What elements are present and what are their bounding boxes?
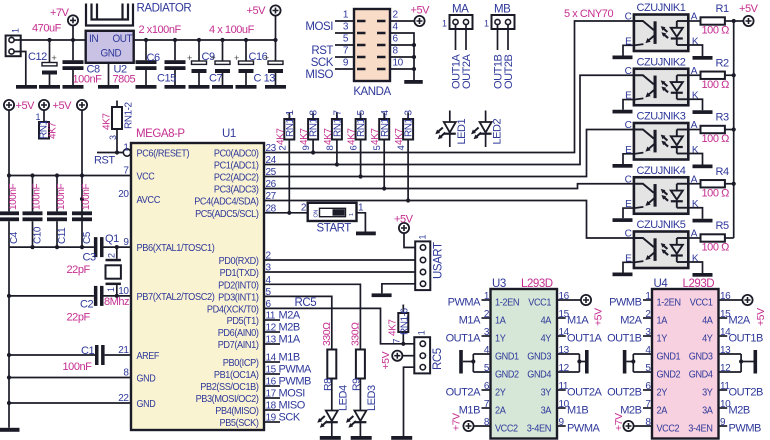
svg-text:OUT2B: OUT2B [503, 54, 515, 89]
svg-text:22: 22 [118, 393, 129, 404]
svg-text:RN1-1: RN1-1 [285, 109, 296, 137]
wire CZUJNIK5 cathode gnd [688, 262, 702, 273]
svg-text:100 Ω: 100 Ω [702, 79, 730, 91]
svg-text:+5V: +5V [247, 5, 267, 17]
resistor R3 100 [688, 112, 733, 146]
capacitor C6 [136, 38, 160, 85]
svg-text:1: 1 [11, 28, 21, 33]
svg-text:PC0(ADC0): PC0(ADC0) [214, 149, 259, 160]
svg-text:PD6(AIN0): PD6(AIN0) [218, 328, 259, 339]
node [732, 73, 736, 77]
ground [459, 350, 463, 374]
ground [16, 85, 37, 89]
svg-text:MISO: MISO [279, 400, 306, 412]
svg-text:Q1: Q1 [105, 233, 119, 245]
ground [693, 56, 713, 60]
svg-text:7: 7 [392, 339, 402, 344]
svg-text:+5V: +5V [755, 308, 767, 326]
svg-text:4Y: 4Y [702, 333, 713, 344]
wire PD4 RC5 net [264, 297, 414, 344]
svg-text:PC4(ADC4/SDA): PC4(ADC4/SDA) [194, 197, 258, 208]
resistor RN1-3 4K7 pullup [394, 109, 415, 202]
svg-text:4K7: 4K7 [102, 113, 113, 130]
svg-text:5: 5 [343, 34, 349, 45]
svg-text:10: 10 [118, 286, 129, 297]
svg-text:PB0(ICP): PB0(ICP) [223, 358, 259, 369]
LED LED4 [317, 379, 349, 437]
resistor R8 330 [321, 322, 337, 391]
svg-text:M1A: M1A [279, 334, 301, 346]
svg-text:CZUJNIK1: CZUJNIK1 [637, 2, 686, 14]
svg-text:4K7: 4K7 [48, 122, 59, 139]
svg-text:U3: U3 [492, 278, 506, 290]
svg-text:+7V: +7V [451, 413, 463, 431]
optocoupler CZUJNIK2 CNY70 [625, 56, 699, 105]
svg-text:4K7: 4K7 [388, 319, 399, 336]
svg-text:7: 7 [343, 46, 349, 57]
svg-text:GND4: GND4 [689, 369, 713, 380]
connector RC5 [414, 330, 444, 373]
svg-text:+5V: +5V [411, 5, 431, 17]
wire U2 gnd [108, 63, 110, 85]
svg-text:C: C [625, 120, 632, 131]
+7V power U3 VCC2 [451, 413, 491, 431]
IC U4 L293D [652, 278, 719, 439]
+5V power sensors [734, 3, 759, 26]
connector KANDA [353, 9, 391, 98]
wire U3 M1B [557, 404, 588, 416]
svg-text:PWMB: PWMB [729, 422, 762, 434]
svg-text:7: 7 [123, 166, 129, 177]
wire U4 OUT2B [607, 386, 652, 398]
svg-text:+5V: +5V [593, 308, 605, 326]
capacitor C15 [157, 38, 186, 85]
ground [693, 219, 713, 223]
svg-text:C6: C6 [147, 52, 160, 64]
svg-text:RN1-8: RN1-8 [309, 109, 320, 137]
svg-text:C15: C15 [157, 73, 176, 85]
wire U3 OUT1A [557, 332, 603, 344]
wire pin5 RST [311, 34, 354, 58]
svg-text:1: 1 [442, 19, 447, 29]
svg-text:20: 20 [118, 189, 129, 200]
svg-text:M2B: M2B [279, 322, 300, 334]
svg-text:C1: C1 [81, 345, 94, 357]
regulator U2 7805 [86, 31, 136, 86]
ground [0, 428, 20, 432]
svg-text:RADIATOR: RADIATOR [137, 3, 192, 15]
svg-text:3A: 3A [702, 405, 713, 416]
ground [189, 85, 210, 89]
svg-text:+5V: +5V [394, 214, 414, 226]
svg-text:M1A: M1A [567, 314, 589, 326]
wire U3 M1B [459, 404, 491, 416]
svg-text:C2: C2 [80, 299, 93, 311]
ground [404, 80, 423, 84]
svg-text:3Y: 3Y [702, 387, 713, 398]
svg-text:2A: 2A [495, 405, 506, 416]
svg-text:100nF: 100nF [73, 74, 103, 86]
capacitor C16 [234, 38, 268, 85]
wire GND pin8 [9, 377, 131, 379]
svg-text:1Y: 1Y [495, 333, 506, 344]
svg-text:OUT1A: OUT1A [567, 332, 603, 344]
svg-text:4: 4 [393, 22, 399, 33]
wire U4 OUT2B [719, 386, 764, 398]
svg-text:SCK: SCK [311, 57, 334, 69]
svg-text:R3: R3 [716, 112, 729, 124]
wire CZUJNIK4 emitter gnd [623, 208, 634, 218]
svg-text:M2A: M2A [620, 314, 642, 326]
resistor RN1-1 4K7 pullup [275, 109, 296, 214]
ground [136, 85, 157, 89]
svg-text:+: + [211, 53, 216, 63]
svg-text:PC2(ADC2): PC2(ADC2) [214, 173, 259, 184]
svg-text:OUT2A: OUT2A [461, 53, 473, 89]
svg-text:AVCC: AVCC [137, 195, 161, 206]
svg-text:RC5: RC5 [432, 348, 444, 370]
svg-text:330Ω: 330Ω [321, 322, 333, 346]
LED LED1 [435, 111, 468, 148]
svg-text:2: 2 [301, 203, 307, 214]
svg-text:+5V: +5V [380, 351, 392, 369]
svg-text:M1B: M1B [279, 352, 300, 364]
wire CZUJNIK2 emitter gnd [623, 100, 634, 110]
crystal Q1 8Mhz [104, 233, 129, 308]
wire +5V to USART pin1 [404, 233, 415, 248]
svg-text:CZUJNIK5: CZUJNIK5 [637, 219, 686, 231]
svg-text:LED3: LED3 [366, 385, 378, 411]
connector MA [442, 4, 473, 30]
ground [391, 436, 412, 440]
svg-text:PB3(MOSI/OC2): PB3(MOSI/OC2) [196, 394, 259, 405]
svg-text:+5V: +5V [739, 3, 759, 15]
svg-text:100 Ω: 100 Ω [702, 133, 730, 145]
svg-text:GND2: GND2 [495, 369, 519, 380]
svg-text:OUT1B: OUT1B [607, 332, 642, 344]
svg-text:1-2EN: 1-2EN [495, 297, 519, 308]
svg-text:VCC: VCC [137, 172, 156, 183]
wire CZUJNIK3 cathode gnd [688, 154, 702, 165]
LED LED2 [471, 111, 504, 148]
svg-text:MOSI: MOSI [279, 388, 306, 400]
connector USART [415, 235, 444, 291]
resistor R9 330 [349, 322, 365, 391]
node [732, 182, 736, 186]
svg-text:3: 3 [343, 22, 349, 33]
svg-text:VCC1: VCC1 [528, 297, 551, 308]
svg-text:+: + [234, 53, 239, 63]
wire MOSI pin1 [305, 10, 354, 34]
svg-text:4A: 4A [541, 315, 552, 326]
svg-text:START: START [317, 223, 352, 235]
node [47, 38, 75, 42]
wire U3 PWMA [448, 296, 491, 308]
svg-text:+: + [264, 53, 269, 63]
svg-text:100 Ω: 100 Ω [702, 242, 730, 254]
+7V power U4 VCC2 [613, 413, 652, 431]
svg-text:3-4EN: 3-4EN [688, 423, 712, 434]
wire PD2 [264, 284, 360, 349]
resistor RN1 common pin1 [35, 110, 58, 139]
svg-text:C4: C4 [9, 231, 20, 244]
wire GND pin22 [9, 402, 131, 404]
svg-text:+: + [187, 53, 192, 63]
svg-text:9: 9 [301, 146, 312, 151]
wire U4 PWMB [719, 422, 762, 434]
svg-text:M1B: M1B [567, 404, 588, 416]
svg-text:8: 8 [123, 368, 129, 379]
svg-text:CZUJNIK2: CZUJNIK2 [637, 56, 686, 68]
svg-text:RN1-2: RN1-2 [124, 101, 135, 129]
svg-text:PWMA: PWMA [279, 364, 313, 376]
svg-text:9: 9 [343, 58, 349, 69]
svg-text:C: C [625, 229, 632, 240]
svg-text:GND2: GND2 [657, 369, 681, 380]
optocoupler CZUJNIK4 CNY70 [625, 165, 699, 214]
ground [613, 164, 633, 168]
svg-text:3Y: 3Y [541, 387, 552, 398]
svg-text:GND1: GND1 [657, 351, 681, 362]
svg-text:KANDA: KANDA [353, 86, 391, 98]
wire [8, 110, 10, 176]
svg-text:1-2EN: 1-2EN [657, 297, 681, 308]
svg-text:5: 5 [372, 146, 383, 151]
svg-text:M2A: M2A [729, 314, 751, 326]
wire CZUJNIK4 cathode gnd [688, 208, 702, 219]
svg-text:7805: 7805 [113, 74, 136, 86]
+5V power U4 VCC1 [719, 295, 768, 326]
svg-text:+5V: +5V [53, 100, 73, 112]
ground [351, 436, 372, 440]
wire START to gnd [357, 213, 366, 232]
svg-text:100 Ω: 100 Ω [702, 25, 730, 37]
svg-text:2 x100nF: 2 x100nF [139, 24, 182, 36]
svg-text:GND4: GND4 [527, 369, 551, 380]
svg-text:2Y: 2Y [657, 387, 668, 398]
wire pins 4,6,8,10 gnd [390, 22, 416, 81]
svg-text:GND: GND [137, 399, 156, 410]
wire U4 gnd right [719, 354, 754, 372]
svg-text:RC5: RC5 [295, 297, 317, 309]
wire MA pin1 [451, 25, 463, 89]
svg-text:PWMB: PWMB [609, 296, 642, 308]
+5V power left [4, 100, 35, 112]
svg-text:PWMB: PWMB [279, 376, 312, 388]
wire PC4 net to sensor 5 [264, 201, 634, 239]
svg-text:6: 6 [393, 34, 399, 45]
+5V power RC5 [380, 351, 402, 370]
MCU U1 MEGA8-P [131, 128, 264, 430]
svg-text:100nF: 100nF [63, 361, 93, 373]
switch START [301, 203, 364, 235]
svg-text:2: 2 [107, 253, 117, 258]
wire CZUJNIK2 cathode gnd [688, 99, 702, 110]
svg-text:+7V: +7V [613, 413, 625, 431]
svg-text:2: 2 [277, 146, 288, 151]
wire pin2 +5V [390, 5, 430, 27]
svg-text:IN: IN [89, 33, 99, 45]
svg-text:100nF: 100nF [8, 184, 19, 210]
svg-text:PB4(MISO): PB4(MISO) [215, 406, 258, 417]
svg-text:3: 3 [108, 135, 118, 140]
wire U4 PWMB [609, 296, 652, 308]
svg-text:MOSI: MOSI [305, 21, 333, 33]
wire RC5 pin3 gnd [404, 367, 415, 436]
svg-text:ON: ON [314, 210, 320, 218]
svg-text:PWMA: PWMA [448, 296, 482, 308]
svg-text:C: C [625, 174, 632, 185]
svg-text:1: 1 [106, 287, 116, 292]
svg-text:3-4EN: 3-4EN [527, 423, 551, 434]
capacitor C10 100nF [23, 176, 44, 248]
svg-text:U1: U1 [222, 128, 236, 140]
svg-text:RST: RST [94, 155, 115, 167]
svg-text:LED2: LED2 [492, 118, 504, 144]
pin numbers U1 left [118, 143, 129, 405]
wire CZUJNIK3 emitter gnd [623, 154, 634, 164]
svg-text:MB: MB [494, 4, 511, 16]
svg-text:100nF: 100nF [32, 184, 43, 210]
wire U3 OUT1A [446, 332, 491, 344]
label 2x100nF [139, 24, 182, 36]
svg-text:L293D: L293D [521, 278, 553, 290]
svg-text:330Ω: 330Ω [349, 322, 361, 346]
+5V power RN1 common [39, 100, 72, 112]
svg-text:1: 1 [484, 19, 489, 29]
ground [265, 85, 286, 89]
svg-text:MA: MA [452, 4, 469, 16]
svg-text:C 13: C 13 [254, 73, 276, 85]
ground [212, 85, 233, 89]
ground [754, 350, 758, 374]
ground [372, 293, 392, 297]
ground [39, 85, 60, 89]
svg-text:AREF: AREF [137, 351, 160, 362]
IC U3 L293D [491, 278, 558, 439]
wire U3 M1A [557, 314, 589, 326]
svg-text:C11: C11 [57, 227, 68, 244]
node [732, 127, 736, 131]
svg-text:RN1-4: RN1-4 [380, 109, 391, 137]
svg-text:1: 1 [417, 330, 427, 335]
resistor RN1-7 4K7 pullup [323, 109, 344, 166]
wire U3 PWMA [557, 422, 601, 434]
svg-text:PC1(ADC1): PC1(ADC1) [214, 161, 259, 172]
capacitor C12 [28, 23, 62, 86]
wire PC1 net to sensor 2 [264, 75, 634, 164]
svg-text:10: 10 [393, 58, 404, 69]
svg-text:R5: R5 [716, 220, 729, 232]
svg-text:MISO: MISO [305, 69, 333, 81]
ground [98, 85, 119, 89]
wire [14, 52, 26, 86]
svg-text:VCC2: VCC2 [657, 423, 680, 434]
resistor R1 100 [688, 3, 733, 37]
svg-text:8: 8 [393, 46, 399, 57]
ground [613, 273, 633, 277]
capacitor C2 22pF [9, 286, 131, 324]
svg-text:6: 6 [349, 146, 360, 151]
svg-text:MEGA8-P: MEGA8-P [136, 128, 185, 140]
capacitor C4 100nF [0, 176, 20, 248]
wire PC2 net to sensor 3 [264, 130, 634, 177]
ground [236, 85, 257, 89]
node [7, 173, 84, 201]
+5V power USART [394, 214, 414, 234]
resistor RN1-4 4K7 pullup [370, 109, 391, 190]
svg-text:4A: 4A [702, 315, 713, 326]
svg-text:C: C [625, 12, 632, 23]
svg-text:GND3: GND3 [527, 351, 551, 362]
svg-text:PB6(XTAL1/TOSC1): PB6(XTAL1/TOSC1) [137, 243, 215, 254]
ground [693, 273, 713, 277]
resistor RN1-5 4K7 pullup [347, 109, 368, 178]
svg-text:4: 4 [396, 146, 407, 151]
svg-text:C7: C7 [209, 73, 222, 85]
+5V power out [247, 5, 281, 40]
wire U2 out [134, 39, 276, 41]
svg-text:4Y: 4Y [541, 333, 552, 344]
svg-text:21: 21 [118, 345, 129, 356]
svg-text:1: 1 [343, 10, 349, 21]
svg-text:PC3(ADC3): PC3(ADC3) [214, 185, 259, 196]
wire U4 M2B [719, 404, 750, 416]
svg-text:PD5(T1): PD5(T1) [227, 316, 259, 327]
svg-text:VCC2: VCC2 [495, 423, 518, 434]
svg-text:5 x CNY70: 5 x CNY70 [564, 8, 613, 20]
wire +5V rail to VCC [9, 110, 131, 247]
svg-text:RN1-5: RN1-5 [356, 109, 367, 137]
svg-text:PD3(INT1): PD3(INT1) [218, 292, 258, 303]
node [732, 19, 736, 23]
+5V power U3 VCC1 [557, 295, 605, 326]
svg-text:22pF: 22pF [67, 264, 91, 276]
svg-text:U4: U4 [654, 278, 669, 290]
svg-text:100nF: 100nF [56, 184, 67, 210]
svg-text:OUT1B: OUT1B [729, 332, 764, 344]
svg-text:M1A: M1A [459, 314, 481, 326]
wire PD3 [264, 296, 332, 349]
wire PC0 net to sensor 1 [264, 21, 634, 153]
wire pin3 [335, 22, 354, 34]
ground [585, 350, 589, 374]
svg-text:PB1(OC1A): PB1(OC1A) [214, 370, 259, 381]
ground [356, 232, 376, 236]
svg-text:PD2(INT0): PD2(INT0) [218, 280, 258, 291]
svg-text:USART: USART [433, 242, 445, 279]
svg-text:R2: R2 [716, 57, 729, 69]
svg-text:PD1(TXD): PD1(TXD) [220, 268, 259, 279]
resistor R5 100 [688, 220, 733, 254]
net label stubs right [264, 310, 312, 424]
ground [63, 85, 84, 89]
svg-text:22pF: 22pF [67, 312, 91, 324]
svg-text:GND: GND [137, 374, 156, 385]
svg-text:PD4(XCK/T0): PD4(XCK/T0) [207, 304, 259, 315]
wire U4 M2A [719, 314, 751, 326]
svg-text:1: 1 [349, 213, 355, 216]
wire PC5 to START [264, 212, 308, 214]
wire RST [94, 150, 123, 166]
svg-text:4 x 100uF: 4 x 100uF [209, 24, 255, 36]
svg-text:SCK: SCK [279, 412, 301, 424]
svg-text:C3: C3 [83, 252, 96, 264]
svg-text:GND1: GND1 [495, 351, 519, 362]
wire U3 M1A [459, 314, 491, 326]
+7V power [50, 7, 78, 40]
wire [14, 39, 86, 41]
